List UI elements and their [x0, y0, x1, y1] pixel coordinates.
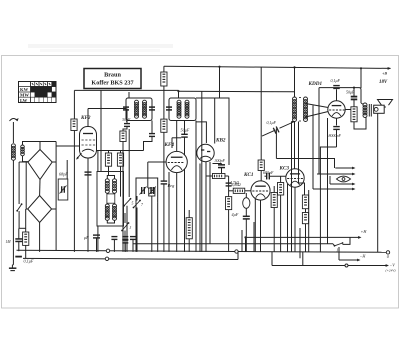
- label 500pF: [263, 170, 274, 175]
- resistor R8: [226, 197, 232, 210]
- label KF2: [80, 115, 91, 121]
- wire R2 down: [108, 166, 110, 175]
- wire T1 right bottom: [299, 122, 305, 196]
- wire diamond left link: [19, 162, 28, 209]
- wire x319 down: [318, 88, 320, 174]
- resistor R16: [23, 232, 29, 245]
- svg-text:+H: +H: [361, 229, 368, 234]
- wire x300: [299, 228, 301, 258]
- svg-text:LW: LW: [20, 98, 28, 103]
- label Reg: [167, 183, 176, 188]
- wire osc box down: [97, 226, 99, 252]
- wire KF4 top: [176, 121, 178, 152]
- wire x308: [308, 190, 310, 252]
- driver transformer T1: [293, 97, 308, 122]
- IFT2 frame: [169, 98, 196, 121]
- svg-text:4μF: 4μF: [232, 212, 239, 217]
- resistor R2: [105, 153, 111, 166]
- svg-text:50μF: 50μF: [346, 90, 355, 95]
- wire x228 down: [228, 176, 230, 197]
- wire -H line: [339, 254, 366, 262]
- wire IFT2 top to rail2: [177, 90, 179, 98]
- wire R11: [280, 176, 282, 252]
- switch S3 (antenna): [16, 162, 22, 228]
- resistor R13: [302, 195, 308, 209]
- scan ghost smudge: [28, 44, 173, 52]
- wire +H line: [244, 229, 367, 239]
- wire R5 down: [163, 132, 165, 181]
- wire anode branch: [126, 109, 128, 124]
- svg-text:50μF: 50μF: [181, 128, 190, 133]
- label 1M: [6, 240, 12, 244]
- label KB2: [215, 138, 226, 144]
- wire osc bottom: [107, 220, 114, 223]
- trimmer capacitor C3: [58, 179, 68, 200]
- wire C10 down: [184, 137, 186, 252]
- wire KF4 grid down: [147, 162, 149, 188]
- svg-text:KF4: KF4: [164, 142, 175, 148]
- wire antenna down: [12, 160, 13, 264]
- jack lens: [337, 176, 351, 182]
- wire KC1 left down: [254, 199, 256, 252]
- jack line 3: [330, 176, 356, 185]
- wire rail1 drop x163: [163, 66, 165, 119]
- trimmer capacitor C6: [140, 187, 147, 195]
- svg-text:KB2: KB2: [215, 138, 226, 144]
- svg-text:(+24V): (+24V): [386, 269, 397, 273]
- wire R16 down: [25, 245, 27, 258]
- antenna coil L1: [11, 144, 15, 161]
- band switch table: [19, 82, 57, 103]
- wire x129 down: [128, 129, 130, 197]
- svg-text:8000pF: 8000pF: [329, 133, 342, 138]
- resistor R15: [351, 107, 357, 122]
- jack line 2: [317, 173, 356, 176]
- resistor R17: [186, 210, 192, 252]
- label 68k: [232, 183, 241, 188]
- wire x354: [353, 87, 355, 97]
- wire KC1 cath: [260, 200, 262, 252]
- resistor R14: [302, 213, 308, 224]
- wire node A vertical: [55, 142, 57, 251]
- wire C27 up: [151, 121, 153, 134]
- svg-text:680pF: 680pF: [263, 170, 274, 175]
- wire KF2 cathode: [87, 158, 89, 252]
- label 8000pF: [329, 133, 342, 138]
- wire C11 down: [163, 184, 165, 252]
- svg-text:−H: −H: [360, 254, 367, 259]
- svg-text:+9: +9: [382, 71, 388, 76]
- wire R18 down: [122, 142, 124, 252]
- power switch S1: [333, 242, 343, 252]
- capacitor C19: [333, 127, 340, 130]
- resistor R11: [278, 183, 284, 196]
- triode tube KF4: [166, 151, 187, 172]
- capacitor C24: [111, 237, 117, 252]
- jack feed line: [276, 159, 334, 169]
- IFT1 cap C8b: [149, 107, 155, 110]
- wire osc top: [107, 176, 114, 179]
- power rail +9V: [164, 66, 391, 85]
- label 300pF: [215, 158, 226, 163]
- label 68pF: [59, 172, 68, 177]
- resistor R6: [149, 188, 155, 196]
- wire osc box feed: [100, 90, 102, 171]
- capacitor C16: [243, 216, 250, 219]
- tuning capacitor section C1 (diamond): [28, 150, 52, 180]
- label 30uF: [122, 117, 131, 122]
- jack line 4: [313, 188, 356, 191]
- wire link y228: [19, 227, 26, 229]
- wire screen row: [97, 151, 144, 154]
- wire KB2 cath down: [199, 164, 201, 252]
- coupling cap C28 diagonal: [262, 122, 295, 137]
- wire x327: [327, 118, 329, 244]
- wire IFT2 sec down: [184, 121, 186, 135]
- resistor R4: [161, 72, 167, 86]
- IFT2 secondary coil: [185, 100, 189, 118]
- wire rail2: [74, 90, 294, 91]
- wire R6 down: [148, 188, 152, 252]
- resistor R3: [117, 153, 123, 166]
- ground bus 1: [17, 249, 387, 253]
- switch S5: [123, 198, 133, 207]
- wire R13R14: [305, 209, 307, 252]
- capacitor C11: [161, 181, 168, 184]
- wire coil bottom: [23, 156, 29, 162]
- antenna: [10, 118, 19, 143]
- svg-text:68pF: 68pF: [59, 172, 68, 177]
- label KF4: [164, 142, 175, 148]
- wire KB2 feed: [196, 122, 206, 143]
- ground bus 2: [23, 252, 238, 261]
- wire C10 left: [172, 138, 181, 148]
- wire R3 down: [120, 166, 122, 196]
- IFT1 secondary coil: [143, 100, 147, 118]
- svg-text:Braun: Braun: [104, 72, 121, 79]
- capacitor C18: [333, 86, 340, 89]
- triode tube KC1: [251, 181, 270, 200]
- switch S6: [121, 222, 131, 231]
- label KC1: [243, 172, 254, 178]
- svg-text:KF2: KF2: [80, 115, 91, 121]
- resistor R18: [120, 131, 126, 142]
- resistor R10: [233, 188, 245, 193]
- trimmer capacitor C7: [149, 187, 156, 195]
- resistor R9: [258, 160, 264, 171]
- wire KC3 cath: [294, 187, 296, 252]
- label 4uF: [232, 212, 239, 217]
- wire R12 down: [273, 186, 275, 252]
- oscillator shield box: [97, 172, 124, 227]
- IFT1 frame: [126, 98, 152, 121]
- wire x313: [312, 105, 314, 189]
- wire diamond2 down: [39, 223, 41, 252]
- label 01uF KC3 anode: [267, 120, 277, 126]
- wire rail2 left riser: [73, 90, 75, 119]
- capacitor C17: [267, 173, 270, 180]
- label 01uF bottom: [24, 259, 34, 265]
- svg-text:300pF: 300pF: [215, 158, 226, 163]
- wire box corner: [196, 98, 229, 165]
- wire x242: [241, 230, 243, 252]
- switch S7: [133, 200, 144, 209]
- wire sw verticals: [125, 196, 137, 252]
- svg-text:Koffer BKS 237: Koffer BKS 237: [91, 80, 133, 87]
- IFT1 cap C8a: [123, 107, 129, 110]
- wire C19 down: [320, 130, 336, 253]
- resistor R1: [71, 119, 77, 131]
- wire KF2 grid: [56, 145, 79, 147]
- output tube KDD1: [328, 101, 345, 118]
- svg-text:1M: 1M: [6, 240, 12, 244]
- capacitor C5: [124, 124, 130, 127]
- wire R7: [206, 162, 229, 252]
- capacitor C4: [85, 172, 92, 175]
- wire R15 down: [354, 118, 366, 130]
- capacitor C10: [181, 134, 188, 137]
- wire R9 tube: [260, 171, 262, 182]
- ground symbol: [9, 265, 17, 271]
- label 01uF top: [331, 78, 341, 84]
- svg-text:18V: 18V: [379, 80, 388, 85]
- wire x202 cross: [201, 92, 203, 252]
- label 47k: [230, 181, 239, 186]
- resistor R5: [161, 119, 167, 132]
- wire KB2 right: [213, 164, 222, 165]
- wire KB2 anode drop: [214, 98, 216, 144]
- loudspeaker LS: [374, 100, 393, 114]
- svg-text:−V: −V: [390, 263, 396, 268]
- wire node B vertical: [66, 160, 68, 179]
- svg-text:μF: μF: [84, 235, 89, 240]
- svg-text:5: 5: [132, 202, 134, 206]
- wire coil top: [23, 142, 57, 146]
- wire KDD1 grid line: [306, 104, 329, 108]
- wire diamond1 top: [39, 142, 41, 150]
- wire KF4 left: [148, 161, 166, 163]
- oscillator coil L3: [105, 179, 116, 221]
- wire KF2 anode up: [87, 109, 89, 127]
- wire anode line: [319, 88, 364, 105]
- wire KC1 to KC3: [265, 175, 287, 177]
- wire -V drop: [272, 252, 303, 266]
- jack feed riser: [275, 129, 277, 159]
- label 50uF: [181, 128, 190, 133]
- wire padder down: [136, 203, 158, 252]
- wire KF4 cathode: [176, 173, 178, 252]
- wire +H drop: [245, 237, 247, 252]
- wire KDD1 plate stub: [345, 109, 351, 111]
- output transformer T2: [363, 103, 371, 118]
- triode tube KC3: [286, 169, 304, 187]
- svg-text:Reg: Reg: [167, 183, 176, 188]
- wire x169: [168, 172, 170, 252]
- svg-text:KC1: KC1: [243, 172, 254, 178]
- wire diamond stubs: [52, 162, 57, 209]
- wire -V line: [272, 263, 396, 273]
- wire rail to T2: [360, 67, 362, 88]
- electrolytic C20: [351, 97, 358, 100]
- wire KF2 screen down: [73, 131, 75, 252]
- wire KDD1 cath line: [306, 112, 329, 118]
- wire R8 down: [228, 210, 230, 252]
- label KDD1: [308, 81, 323, 87]
- label KC3: [279, 166, 290, 172]
- tuning capacitor section C2 (diamond): [28, 196, 52, 223]
- wire switch feed: [133, 243, 333, 245]
- label 50uF right: [346, 90, 355, 95]
- IFT2 primary coil: [177, 100, 181, 118]
- capacitor C29 plates: [15, 256, 22, 258]
- wire T1 top: [294, 67, 296, 97]
- capacitor C23: [93, 235, 100, 252]
- wire T1 left bottom to KC3: [294, 122, 296, 170]
- wire C16 down: [245, 208, 247, 252]
- wire x287: [287, 184, 289, 252]
- IFT1 primary coil: [135, 100, 139, 118]
- page scan border: [2, 56, 399, 309]
- pentode tube KF2: [80, 127, 97, 159]
- resistor R12: [271, 193, 277, 208]
- capacitor C22: [15, 228, 22, 251]
- svg-text:KC3: KC3: [279, 166, 290, 172]
- svg-text:KW: KW: [20, 87, 29, 92]
- wire osc stem: [97, 151, 99, 172]
- wire switch out: [343, 237, 351, 244]
- wire IFT1 rail tick: [128, 92, 130, 98]
- wire T1 left bottom down: [292, 122, 295, 253]
- duodiode tube KB2: [197, 144, 214, 161]
- wire x254: [253, 222, 255, 252]
- label uF: [84, 235, 89, 240]
- wire padder loop: [136, 178, 158, 203]
- KF2 cathode arrow: [77, 153, 82, 159]
- wire KB2 diode down: [209, 162, 211, 244]
- wire KDD1 anode top: [336, 89, 338, 101]
- title box Braun Koffer BKS 237: [84, 69, 141, 89]
- wire rail1 drop x219: [219, 67, 221, 98]
- capacitor C26: [130, 237, 136, 252]
- wire R10: [229, 190, 251, 192]
- capacitor C27: [149, 134, 155, 137]
- wire C20 R15: [353, 100, 355, 107]
- terminal 0: [386, 251, 390, 259]
- svg-text:KDD1: KDD1: [308, 81, 323, 87]
- wire screen riser: [144, 137, 153, 151]
- resistor R7: [212, 174, 225, 179]
- wire KF2 anode to IFT1: [88, 108, 126, 110]
- wire rail1 drop x261: [260, 67, 262, 160]
- capacitor C25: [122, 237, 128, 252]
- electrolytic C15: [243, 193, 250, 208]
- capacitor C13: [218, 165, 225, 174]
- wire KDD1 cath: [336, 118, 338, 125]
- wire diamond link: [39, 180, 41, 196]
- wire C5 link: [123, 126, 127, 131]
- coupling coil L2: [21, 145, 25, 156]
- wire diamond link down: [25, 209, 27, 232]
- wire -H drop: [338, 247, 340, 260]
- wire speaker down: [377, 113, 379, 252]
- wire IFT2 right down: [195, 121, 197, 252]
- jack line 1: [335, 167, 355, 170]
- IFT2 tuning cap C9: [166, 107, 172, 110]
- capacitor C14: [226, 183, 232, 186]
